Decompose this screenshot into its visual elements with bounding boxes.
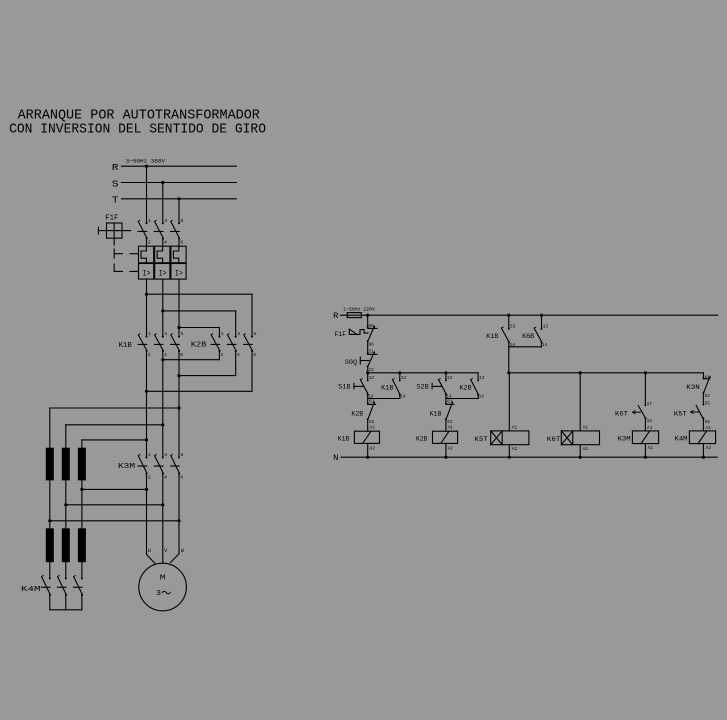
svg-text:N: N: [333, 453, 338, 463]
svg-text:K2B: K2B: [191, 342, 207, 350]
svg-text:3~50Hz 380V: 3~50Hz 380V: [126, 158, 166, 165]
breaker magnetic element I> 2: [155, 264, 170, 280]
node K1B-N: [366, 456, 369, 459]
label S0Q: [345, 359, 357, 366]
wire K4M rung drop: [702, 373, 704, 379]
node rail-K3M: [644, 371, 647, 374]
label A2 K2B: [448, 445, 454, 451]
wire T: [122, 198, 237, 200]
node v2 tr2 top: [161, 423, 164, 426]
phase label S: [112, 178, 119, 189]
svg-text:6: 6: [253, 352, 256, 358]
label A1 K5T: [512, 424, 518, 430]
label K3N contact: [686, 384, 700, 391]
coil K4M: [689, 431, 715, 444]
node tap col3-v1: [145, 488, 148, 491]
svg-text:6: 6: [180, 474, 183, 480]
label K3M main: [118, 463, 135, 471]
svg-text:13: 13: [479, 375, 484, 381]
node v1-K2B feed: [145, 293, 148, 296]
svg-text:A1: A1: [369, 425, 375, 431]
svg-text:13: 13: [447, 375, 452, 381]
wire v1 K3M-motor: [147, 474, 155, 564]
contact K1B NC: [445, 399, 454, 432]
wire start rail: [368, 372, 478, 374]
svg-text:1: 1: [148, 331, 151, 337]
autotransformer T1 upper winding 3: [78, 448, 86, 481]
label K4M main: [21, 586, 41, 594]
svg-text:56: 56: [705, 419, 710, 425]
svg-text:U: U: [148, 548, 151, 554]
node R tap: [145, 165, 148, 168]
phase label R: [112, 162, 119, 173]
label K5T coil: [474, 436, 488, 443]
svg-text:K2B: K2B: [416, 435, 428, 442]
wire K5T to N: [508, 445, 510, 458]
wire col1 to K4M: [49, 562, 51, 578]
autotransformer T1 upper winding 2: [62, 448, 70, 481]
svg-text:A2: A2: [369, 445, 375, 451]
label A2 K3M: [648, 445, 654, 451]
timer coil K6T: [561, 431, 599, 445]
wire K5T feed: [508, 373, 510, 431]
label S1B: [338, 383, 351, 390]
svg-text:I>: I>: [143, 270, 151, 279]
label N: [333, 453, 338, 463]
svg-text:R: R: [333, 311, 338, 321]
svg-text:17: 17: [647, 401, 652, 407]
svg-text:4: 4: [164, 352, 167, 358]
fuse F1F: [107, 223, 123, 238]
svg-text:13: 13: [369, 375, 374, 381]
svg-text:K1B: K1B: [381, 384, 393, 391]
wire K2B pole1 out: [163, 351, 220, 360]
label A2 K6T: [583, 446, 589, 452]
label K6T contact: [615, 411, 628, 418]
breaker magnetic element I> 1: [139, 264, 154, 280]
node R-F1F: [366, 314, 369, 317]
svg-text:5: 5: [181, 452, 184, 458]
label S2B: [416, 383, 429, 390]
node v3 tr1 top: [177, 406, 180, 409]
node K2B1-v2: [161, 358, 164, 361]
svg-text:A1: A1: [706, 425, 712, 431]
wire tr col1 top: [50, 408, 179, 448]
wire tap col1 to v3: [50, 520, 179, 522]
autotransformer T1 upper winding 1: [46, 448, 54, 481]
svg-text:1: 1: [148, 452, 151, 458]
contact K5T NC delayed: [691, 401, 710, 425]
wire col2 to K4M: [65, 562, 67, 578]
svg-text:S: S: [112, 178, 119, 189]
svg-text:S1B: S1B: [338, 383, 351, 390]
wire R drop: [146, 166, 148, 223]
node tap col1-v3: [177, 519, 180, 522]
svg-text:K1B: K1B: [119, 342, 132, 350]
svg-text:3: 3: [164, 452, 167, 458]
breaker thermal element 1: [139, 246, 154, 263]
wire v1 to K2B pole3: [147, 294, 253, 336]
svg-text:13: 13: [543, 323, 548, 329]
wire star bus: [50, 595, 82, 610]
svg-text:62: 62: [447, 419, 452, 425]
wire K2B pole2 out: [179, 351, 236, 376]
wire K3M rung drop: [644, 373, 646, 406]
label K3M coil: [618, 435, 631, 442]
contact K1B aux NO: [392, 373, 406, 400]
node K2B-N: [444, 456, 447, 459]
svg-text:53: 53: [510, 323, 515, 329]
fuse F1F label: [105, 214, 118, 222]
coil K1B: [354, 431, 379, 443]
motor M1: [139, 563, 187, 611]
svg-text:2: 2: [148, 239, 151, 245]
svg-text:K3M: K3M: [618, 435, 631, 442]
svg-text:55: 55: [705, 401, 710, 407]
node S2B tap: [444, 371, 447, 374]
contactor K4M pole 3: [74, 575, 83, 596]
wire tr col3 mid: [81, 480, 83, 528]
label A1 K4M: [706, 425, 712, 431]
svg-text:3: 3: [164, 218, 167, 224]
svg-text:T: T: [112, 195, 119, 206]
node K1B aux tap: [398, 371, 401, 374]
svg-text:5: 5: [181, 218, 184, 224]
autotransformer T1 lower winding 1: [46, 528, 54, 562]
contactor K1B pole 2: [154, 331, 167, 358]
svg-text:K4M: K4M: [21, 586, 41, 594]
svg-text:14: 14: [400, 394, 405, 400]
breaker thermal element 2: [155, 246, 170, 263]
contact K1B NO r: [501, 315, 515, 348]
wire K4M coil to N: [702, 444, 704, 458]
svg-text:K5T: K5T: [674, 411, 687, 418]
wire K2B coil to N: [445, 443, 447, 457]
node rail-K6T: [579, 371, 582, 374]
svg-text:A1: A1: [647, 425, 653, 431]
wire v3 to K2B pole1: [179, 328, 219, 337]
wire drop to timer rail: [508, 347, 510, 373]
svg-text:K2B: K2B: [351, 410, 363, 417]
label A2 K5T: [512, 446, 518, 452]
wire F1F right: [122, 230, 131, 232]
svg-text:2: 2: [148, 474, 151, 480]
svg-text:A1: A1: [448, 425, 454, 431]
coil K3M: [632, 431, 658, 444]
svg-text:18: 18: [647, 418, 652, 424]
motor terminal labels U V W: [148, 548, 185, 554]
mech link F1F: [114, 238, 138, 271]
wire K6T to N: [579, 445, 581, 458]
label F1F contact: [335, 331, 347, 338]
node bus-K6B: [540, 314, 543, 317]
wire col3 to K4M: [81, 562, 83, 578]
svg-text:5: 5: [254, 331, 257, 337]
label K4M coil: [675, 435, 688, 442]
svg-text:F1F: F1F: [105, 214, 118, 222]
contactor K2B pole 3: [244, 331, 257, 358]
node K6T-N: [579, 456, 582, 459]
svg-text:I>: I>: [159, 270, 167, 279]
contact K2B NC: [367, 399, 376, 432]
phase label T: [112, 195, 119, 206]
svg-text:A2: A2: [512, 446, 518, 452]
autotransformer T1 lower winding 3: [78, 528, 86, 562]
svg-text:K2B: K2B: [459, 384, 471, 391]
wire S drop: [162, 183, 164, 224]
svg-text:A2: A2: [448, 445, 454, 451]
svg-text:A2: A2: [583, 446, 589, 452]
wire tr col3 top: [82, 440, 147, 448]
coil K2B: [433, 431, 458, 443]
timer coil K5T: [491, 431, 529, 445]
svg-text:14: 14: [479, 394, 484, 400]
label K2B interlock: [351, 410, 363, 417]
node tap col1: [48, 519, 51, 522]
label 1~50Hz 220V: [343, 307, 375, 313]
svg-text:K1B: K1B: [486, 333, 498, 340]
wire rung2 rejoin: [446, 398, 478, 400]
svg-text:4: 4: [237, 352, 240, 358]
label K5T contact: [674, 411, 687, 418]
wire tap col2 to v2: [66, 504, 163, 506]
svg-text:62: 62: [705, 393, 710, 399]
svg-text:A1: A1: [512, 424, 518, 430]
wire S: [122, 182, 237, 184]
svg-text:A2: A2: [706, 445, 712, 451]
label K1B coil: [338, 435, 350, 442]
wire K6T feed: [579, 373, 581, 431]
svg-text:3: 3: [156, 590, 162, 598]
svg-text:2: 2: [221, 352, 224, 358]
svg-text:3: 3: [237, 331, 240, 337]
node K3M-N: [644, 456, 647, 459]
svg-text:M: M: [160, 574, 166, 582]
wire K3M coil to N: [644, 444, 646, 458]
svg-text:4: 4: [164, 239, 167, 245]
node K2B2-v3: [177, 374, 180, 377]
svg-text:5: 5: [181, 331, 184, 337]
contactor K3M pole 2: [154, 452, 167, 480]
node K4M-N: [702, 456, 705, 459]
label K2B aux: [459, 384, 471, 391]
svg-text:1: 1: [221, 331, 224, 337]
wire K1B coil to N: [367, 443, 369, 457]
label A2 K4M: [706, 445, 712, 451]
contactor K2B pole 1: [211, 331, 224, 358]
label K2B main: [191, 342, 207, 350]
svg-text:K4M: K4M: [675, 435, 688, 442]
wire N bus: [341, 456, 717, 458]
contactor K3M pole 3: [171, 452, 184, 480]
svg-text:K6B: K6B: [522, 333, 534, 340]
title line 1: [18, 108, 260, 123]
wire K1B-K6B rejoin: [509, 346, 542, 348]
wire v2 K3M-motor: [162, 474, 164, 564]
svg-text:K1B: K1B: [338, 435, 350, 442]
svg-text:K5T: K5T: [474, 436, 488, 443]
svg-text:13: 13: [401, 375, 406, 381]
contactor K4M pole 2: [57, 575, 66, 596]
svg-text:96: 96: [369, 341, 374, 347]
terminal F1F left: [98, 227, 106, 234]
label A1 K3M: [647, 425, 653, 431]
label A1 K1B: [369, 425, 375, 431]
fuse F2F: [347, 313, 361, 318]
breaker Q1 pole 2: [154, 218, 167, 246]
contact K6T NO delayed: [633, 401, 652, 424]
label K6B retention: [522, 333, 534, 340]
contact K2B aux NO: [471, 373, 485, 400]
pushbutton S2B NO: [432, 373, 452, 400]
svg-text:K6T: K6T: [547, 436, 561, 443]
label K1B retention: [486, 333, 498, 340]
label K1B main: [119, 342, 132, 350]
contact K3N NC: [702, 374, 710, 399]
label A1 K6T: [583, 424, 589, 430]
wire v2 breaker-K1B: [162, 279, 164, 337]
svg-text:K1B: K1B: [430, 410, 442, 417]
node tap col2-v2: [161, 503, 164, 506]
wire K3N-K5T: [702, 393, 704, 405]
node v2-K2B feed: [161, 309, 164, 312]
title line 2: [9, 123, 266, 138]
svg-text:I>: I>: [175, 270, 183, 279]
wire tap col3 to v1: [82, 488, 147, 490]
wire T drop: [178, 199, 180, 223]
breaker thermal element 3: [171, 246, 186, 263]
contactor K4M pole 1: [41, 575, 50, 596]
label K1B aux: [381, 384, 393, 391]
wire v3 K1B-K3M: [178, 351, 180, 457]
svg-text:ARRANQUE POR AUTOTRANSFORMADOR: ARRANQUE POR AUTOTRANSFORMADOR: [18, 108, 260, 123]
node start rail left: [366, 371, 369, 374]
node timer rail left: [507, 371, 510, 374]
node S tap: [161, 181, 164, 184]
wire R bus: [340, 314, 717, 316]
svg-text:S0Q: S0Q: [345, 359, 357, 366]
svg-text:K3N: K3N: [686, 384, 700, 391]
wire v1 breaker-K1B: [146, 279, 148, 337]
label A2 K1B: [369, 445, 375, 451]
label A1 K2B: [448, 425, 454, 431]
breaker Q1 pole 3: [171, 218, 184, 246]
svg-text:K3M: K3M: [118, 463, 135, 471]
pushbutton S0Q NC: [360, 348, 377, 373]
svg-text:62: 62: [369, 419, 374, 425]
svg-text:4: 4: [164, 474, 167, 480]
contact K6B NO: [534, 315, 548, 348]
breaker magnetic element I> 3: [171, 264, 186, 280]
svg-text:R: R: [112, 162, 119, 173]
node tap col3: [80, 488, 83, 491]
wire v3 K3M-motor: [171, 474, 180, 563]
label K6T coil: [547, 436, 561, 443]
svg-text:6: 6: [180, 352, 183, 358]
svg-text:K6T: K6T: [615, 411, 628, 418]
contactor K1B pole 3: [171, 331, 184, 358]
svg-text:2: 2: [148, 352, 151, 358]
label K1B interlock: [430, 410, 442, 417]
node tap col2: [64, 503, 67, 506]
wire v3 breaker-K1B: [178, 279, 180, 337]
svg-text:1~50Hz 220V: 1~50Hz 220V: [343, 307, 375, 313]
wire v2 K1B-K3M: [162, 351, 164, 457]
wire K6T contact to coil: [644, 418, 646, 431]
svg-text:1: 1: [148, 218, 151, 224]
node v1 tr3 top: [145, 438, 148, 441]
node K5T-N: [508, 456, 511, 459]
svg-text:A2: A2: [648, 445, 654, 451]
node K2B3-v1: [145, 390, 148, 393]
svg-text:6: 6: [180, 239, 183, 245]
contactor K1B pole 1: [138, 331, 151, 358]
label K2B coil: [416, 435, 428, 442]
wire K2B pole3 out: [147, 351, 253, 391]
svg-text:A1: A1: [583, 424, 589, 430]
wire K5T contact to coil: [702, 418, 704, 431]
contactor K2B pole 2: [227, 331, 240, 358]
svg-text:14: 14: [542, 342, 547, 348]
autotransformer T1 lower winding 2: [62, 528, 70, 562]
contact F1F 95-96: [349, 315, 377, 353]
wire rung1 rejoin: [368, 398, 400, 400]
label 3~50Hz 380V: [126, 158, 166, 165]
wire v1 K1B-K3M: [146, 351, 148, 457]
wire tr col2 mid: [65, 480, 67, 528]
breaker Q1 pole 1: [138, 218, 151, 246]
pushbutton S1B NO: [354, 373, 374, 400]
node v3-K2B feed: [177, 326, 180, 329]
label R control: [333, 311, 338, 321]
svg-text:F1F: F1F: [335, 331, 347, 338]
node bus-K1B: [507, 314, 510, 317]
contactor K3M pole 1: [138, 452, 151, 480]
svg-text:S2B: S2B: [416, 383, 429, 390]
node T tap: [177, 197, 180, 200]
svg-text:CON INVERSION DEL SENTIDO DE G: CON INVERSION DEL SENTIDO DE GIRO: [9, 123, 266, 138]
wire R: [122, 165, 237, 167]
wire timer rail: [509, 372, 704, 374]
wire tr col1 mid: [49, 480, 51, 528]
svg-text:3: 3: [164, 331, 167, 337]
wire v2 to K2B pole2: [163, 311, 236, 337]
wire tr col2 top: [66, 425, 163, 448]
